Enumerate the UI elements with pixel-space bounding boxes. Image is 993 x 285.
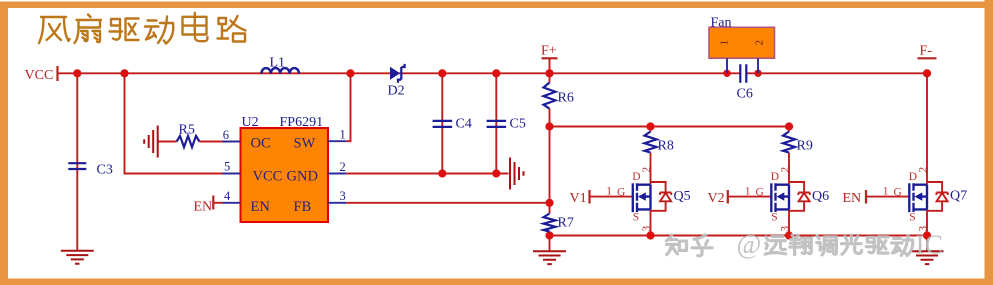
wire V1 gate bbox=[590, 196, 633, 198]
svg-text:1: 1 bbox=[883, 186, 889, 198]
wire R7 node to ground bbox=[549, 236, 551, 252]
svg-text:6: 6 bbox=[223, 128, 229, 142]
svg-text:F+: F+ bbox=[541, 44, 557, 59]
svg-text:VCC: VCC bbox=[253, 169, 283, 185]
wire feedback rail bbox=[550, 126, 790, 128]
svg-text:3: 3 bbox=[340, 189, 346, 203]
ground under Q7 bbox=[911, 251, 944, 264]
capacitor C4 bbox=[433, 121, 453, 127]
svg-text:V1: V1 bbox=[570, 191, 587, 206]
svg-text:IC: IC bbox=[916, 229, 944, 260]
wire Q7 source to ground bbox=[926, 236, 928, 252]
svg-text:EN: EN bbox=[194, 199, 213, 214]
svg-text:S: S bbox=[771, 212, 777, 224]
port VCC bbox=[25, 66, 58, 83]
ground sideways at R5 bbox=[144, 126, 158, 158]
body diode bbox=[927, 182, 948, 211]
svg-text:2: 2 bbox=[779, 167, 791, 173]
svg-text:R5: R5 bbox=[179, 123, 195, 138]
transistor Q6 bbox=[745, 167, 810, 232]
char qu bbox=[110, 19, 139, 41]
junction F- node bbox=[923, 69, 931, 77]
svg-text:U2: U2 bbox=[242, 115, 259, 130]
svg-text:D2: D2 bbox=[388, 84, 405, 99]
wire C4 branch bbox=[441, 73, 443, 173]
resistor R6 bbox=[544, 83, 556, 109]
resistor R8 bbox=[645, 132, 657, 153]
junction C4 on rail bbox=[438, 69, 446, 77]
svg-text:C6: C6 bbox=[737, 87, 753, 102]
wire Q5 source bbox=[650, 209, 652, 235]
junction Fan pin1 bbox=[723, 70, 730, 77]
wm char tiao bbox=[817, 236, 837, 255]
svg-text:G: G bbox=[756, 187, 764, 199]
junction C5 on rail bbox=[492, 69, 500, 77]
capacitor C5 bbox=[487, 121, 507, 127]
svg-text:3: 3 bbox=[779, 226, 791, 232]
body diode bbox=[651, 182, 672, 211]
svg-text:Q5: Q5 bbox=[674, 189, 691, 204]
junction R6 bottom node bbox=[545, 122, 553, 130]
wire R5 to pin6 bbox=[199, 141, 222, 143]
ground under C3 bbox=[61, 251, 94, 264]
wire main VCC rail bbox=[58, 72, 927, 74]
junction U2 VCC branch on rail bbox=[120, 69, 128, 77]
svg-text:R9: R9 bbox=[797, 139, 813, 154]
svg-text:Fan: Fan bbox=[711, 16, 732, 31]
U2 pin numbers bbox=[223, 128, 346, 204]
svg-text:S: S bbox=[909, 212, 915, 224]
MOSFET symbol bbox=[771, 183, 789, 212]
wire R6-R7 node down bbox=[549, 127, 551, 214]
svg-text:SW: SW bbox=[294, 136, 316, 152]
port EN (Q7) bbox=[843, 190, 867, 206]
svg-text:G: G bbox=[617, 187, 625, 199]
svg-text:D: D bbox=[771, 171, 779, 183]
svg-text:S: S bbox=[633, 212, 639, 224]
svg-text:@: @ bbox=[737, 229, 762, 259]
wm char dong bbox=[892, 235, 913, 255]
wire EN gate bbox=[867, 196, 910, 198]
wire R8 top bbox=[650, 127, 652, 132]
capacitor C3 bbox=[68, 163, 86, 169]
svg-text:C5: C5 bbox=[510, 117, 526, 132]
wire VCC pin5 branch bbox=[125, 73, 223, 173]
resistor R7 bbox=[544, 214, 556, 232]
svg-text:2: 2 bbox=[754, 40, 766, 46]
wm char zhi bbox=[667, 235, 687, 255]
IC U2 FP6291 bbox=[241, 115, 329, 222]
junction C3 on VCC rail bbox=[73, 69, 81, 77]
svg-text:1: 1 bbox=[340, 128, 346, 142]
wm char yuan bbox=[765, 237, 786, 255]
ground sideways at GND pin bbox=[510, 158, 524, 190]
capacitor C6 bbox=[740, 64, 746, 83]
transistor Q7 bbox=[883, 167, 948, 232]
wm char xiang bbox=[790, 235, 812, 255]
char feng bbox=[39, 17, 70, 43]
junction Q6 source bbox=[785, 231, 793, 239]
svg-text:F-: F- bbox=[920, 44, 933, 59]
ground under R7 bbox=[533, 251, 566, 264]
svg-text:3: 3 bbox=[641, 226, 653, 232]
svg-text:1: 1 bbox=[745, 186, 751, 198]
junction F+ node on rail bbox=[545, 69, 553, 77]
junction Q5 source bbox=[646, 231, 654, 239]
wire Q7 source bbox=[926, 209, 928, 235]
char shan bbox=[75, 15, 102, 44]
svg-text:2: 2 bbox=[917, 167, 929, 173]
inductor L1 bbox=[261, 68, 299, 73]
body diode bbox=[789, 182, 810, 211]
svg-text:R6: R6 bbox=[558, 91, 574, 106]
svg-text:EN: EN bbox=[843, 191, 862, 206]
pin labels D 2 S 3 1 G bbox=[606, 167, 653, 232]
svg-text:2: 2 bbox=[340, 160, 346, 174]
U2 pin stubs bbox=[223, 141, 347, 203]
svg-text:C3: C3 bbox=[97, 163, 113, 178]
WATERMARK bbox=[667, 229, 943, 260]
char dong bbox=[145, 17, 173, 44]
wm char qu bbox=[866, 237, 888, 253]
svg-text:V2: V2 bbox=[708, 191, 725, 206]
wire R8 to Q5 drain bbox=[650, 153, 652, 185]
wire R6 top bbox=[549, 73, 551, 82]
port F- bbox=[918, 44, 937, 59]
wire FB pin3 to R7 node bbox=[346, 202, 549, 204]
wire Q6 source bbox=[788, 209, 790, 235]
svg-text:FB: FB bbox=[294, 199, 312, 215]
svg-text:R8: R8 bbox=[658, 139, 674, 154]
pin labels D 2 S 3 1 G bbox=[883, 167, 930, 232]
port V2 bbox=[708, 190, 728, 206]
junction R7 bottom bbox=[545, 231, 553, 239]
svg-text:OC: OC bbox=[251, 136, 271, 152]
junction SW node on rail bbox=[346, 69, 354, 77]
svg-text:L1: L1 bbox=[270, 56, 286, 71]
diode D2 bbox=[390, 64, 405, 83]
wire R6 bottom bbox=[549, 109, 551, 127]
svg-text:5: 5 bbox=[224, 160, 230, 174]
char lu bbox=[218, 16, 246, 42]
svg-text:VCC: VCC bbox=[25, 68, 54, 83]
port F+ bbox=[541, 44, 558, 59]
svg-text:D: D bbox=[909, 171, 917, 183]
MOSFET symbol bbox=[633, 183, 651, 212]
svg-text:C4: C4 bbox=[456, 117, 472, 132]
svg-text:D: D bbox=[632, 171, 640, 183]
svg-text:FP6291: FP6291 bbox=[280, 115, 324, 130]
wire EN to pin4 bbox=[214, 202, 223, 204]
svg-text:GND: GND bbox=[287, 169, 318, 185]
junction C4 on GND line bbox=[438, 169, 446, 177]
wire GND pin2 to ground bbox=[346, 173, 508, 175]
wire R7 bottom bbox=[549, 232, 551, 236]
connector Fan bbox=[709, 16, 775, 74]
MOSFET symbol bbox=[909, 183, 927, 212]
pin labels D 2 S 3 1 G bbox=[745, 167, 792, 232]
junction Q7 source bbox=[923, 231, 931, 239]
wm char guang bbox=[842, 235, 862, 254]
svg-text:1: 1 bbox=[606, 186, 612, 198]
wire source rail bbox=[550, 235, 928, 237]
wire R9 top bbox=[788, 127, 790, 132]
wm char hu bbox=[692, 235, 712, 256]
svg-text:EN: EN bbox=[251, 199, 271, 215]
junction C5 on GND line bbox=[492, 169, 500, 177]
junction FB node bbox=[545, 199, 553, 207]
wire V2 gate bbox=[729, 196, 772, 198]
wire F+ stub bbox=[549, 59, 551, 73]
junction Fan pin2 bbox=[754, 70, 761, 77]
transistor Q5 bbox=[606, 167, 671, 232]
svg-text:4: 4 bbox=[224, 189, 231, 203]
resistor R9 bbox=[783, 132, 795, 153]
wire C3 branch bbox=[76, 73, 78, 250]
TITLE bbox=[39, 13, 246, 44]
svg-text:2: 2 bbox=[641, 167, 653, 173]
wire R5 to ground bbox=[158, 141, 177, 143]
wire F- to Q7 drain bbox=[926, 73, 928, 184]
char dian bbox=[183, 13, 208, 41]
svg-text:Q6: Q6 bbox=[812, 189, 829, 204]
wire C5 branch bbox=[495, 73, 497, 173]
wire R9 to Q6 drain bbox=[788, 153, 790, 185]
svg-text:Q7: Q7 bbox=[950, 189, 967, 204]
junction R8 top bbox=[646, 122, 654, 130]
resistor R5 bbox=[177, 136, 200, 147]
svg-text:1: 1 bbox=[719, 40, 731, 46]
svg-text:G: G bbox=[894, 187, 902, 199]
port V1 bbox=[570, 190, 590, 206]
svg-text:R7: R7 bbox=[558, 216, 574, 231]
junction R9 top bbox=[785, 122, 793, 130]
port EN (U2) bbox=[194, 196, 214, 215]
wire SW pin1 to rail bbox=[346, 73, 350, 141]
